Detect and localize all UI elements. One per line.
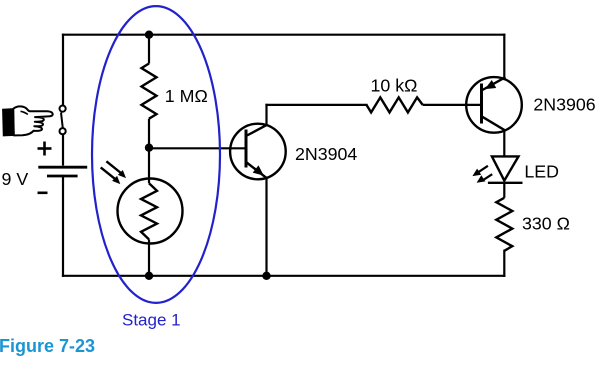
label: 1 Mohm bbox=[165, 86, 208, 106]
svg-text:2N3906: 2N3906 bbox=[533, 94, 595, 114]
wire: battery to bottom rail bbox=[62, 176, 64, 276]
wire: Q1 collector up bbox=[265, 105, 267, 125]
wire: bottom rail bbox=[63, 275, 504, 277]
battery B1 9V (plates) bbox=[38, 167, 87, 176]
svg-text:LED: LED bbox=[524, 162, 559, 182]
node: photoresistor bottom junction bbox=[145, 272, 153, 280]
wire: R1 to mid node bbox=[148, 119, 150, 148]
wire: Q1 emitter down to bottom rail bbox=[265, 178, 267, 276]
svg-text:2N3904: 2N3904 bbox=[295, 144, 357, 164]
transistor Q2 2N3906 (circle) bbox=[466, 77, 522, 133]
label: 2N3904 bbox=[295, 144, 357, 164]
svg-text:330 Ω: 330 Ω bbox=[522, 214, 570, 234]
wire: top rail from battery branch to 2N3906 emitter branch bbox=[63, 34, 504, 36]
light arrow 2 into photoresistor bbox=[101, 167, 121, 184]
wire: Q1 collector to R2 bbox=[267, 104, 367, 106]
Q2 collector line bbox=[482, 116, 505, 130]
label: 9 V bbox=[2, 169, 29, 189]
Q2 base bar bbox=[480, 84, 483, 124]
photoresistor R4 (circle body) bbox=[118, 179, 183, 244]
svg-text:9 V: 9 V bbox=[2, 169, 29, 189]
svg-text:Stage 1: Stage 1 bbox=[122, 311, 181, 330]
Q1 emitter line with arrow bbox=[246, 162, 267, 178]
label: 330 ohm bbox=[522, 214, 570, 234]
label: 2N3906 bbox=[533, 94, 595, 114]
svg-text:1 MΩ: 1 MΩ bbox=[165, 86, 208, 106]
wire: switch to battery bbox=[62, 134, 64, 165]
resistor R1 1 Mohm (vertical zigzag) bbox=[142, 64, 157, 119]
Q1 base bar bbox=[245, 130, 248, 168]
resistor R3 330 ohm (vertical zigzag) bbox=[496, 198, 512, 251]
label: 10 kohm bbox=[371, 76, 418, 96]
LED cathode bar bbox=[488, 182, 523, 184]
resistor R2 10 kohm (horizontal zigzag) bbox=[367, 97, 423, 112]
label: Stage 1 bbox=[122, 311, 181, 330]
caption: Figure 7-23 bbox=[0, 336, 95, 356]
wire: Q2 collector down to LED bbox=[503, 130, 505, 156]
switch S1 (pushbutton, two terminals + lever) bbox=[60, 106, 66, 135]
wire: LED to R3 bbox=[503, 183, 505, 198]
battery plus sign bbox=[38, 142, 52, 156]
wire: photoresistor to bottom rail bbox=[148, 239, 150, 275]
Q1 collector line bbox=[246, 125, 267, 136]
transistor Q1 2N3904 (circle) bbox=[230, 124, 286, 180]
LED light arrow 1 (emitted) bbox=[472, 166, 488, 176]
wire: R3 to bottom rail bbox=[503, 251, 505, 276]
wire: top rail to R1 bbox=[148, 35, 150, 64]
wire: mid node down to photoresistor bbox=[148, 148, 150, 184]
wire: mid node to Q1 base bar bbox=[149, 147, 246, 149]
node: top junction of R1 with top rail bbox=[145, 31, 153, 39]
hand icon pressing switch bbox=[3, 106, 53, 136]
svg-text:10 kΩ: 10 kΩ bbox=[371, 76, 418, 96]
svg-text:Figure 7-23: Figure 7-23 bbox=[0, 336, 95, 356]
wire: R2 to Q2 base bar bbox=[423, 104, 482, 106]
wire: top rail down to Q2 emitter bbox=[503, 35, 505, 79]
battery minus sign bbox=[38, 192, 48, 195]
wire: left rail upper (top rail down to switch) bbox=[62, 35, 64, 106]
LED D1 (triangle) bbox=[492, 156, 519, 180]
Q2 emitter line with arrow bbox=[482, 77, 506, 90]
label: LED bbox=[524, 162, 559, 182]
node: Q1 emitter junction on bottom rail bbox=[262, 272, 270, 280]
photoresistor internal zigzag bbox=[141, 183, 157, 239]
LED light arrow 2 (emitted) bbox=[477, 174, 493, 183]
stage 1 highlight ellipse bbox=[92, 6, 220, 303]
light arrow 1 into photoresistor bbox=[106, 161, 126, 178]
node: mid junction (R1 / photoresistor / Q1 base) bbox=[145, 144, 153, 152]
